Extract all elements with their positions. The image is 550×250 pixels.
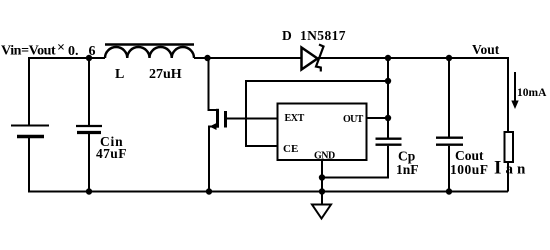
svg-text:×: × bbox=[57, 41, 65, 56]
svg-text:n: n bbox=[517, 162, 526, 178]
svg-text:CE: CE bbox=[283, 143, 298, 155]
svg-text:0.: 0. bbox=[68, 44, 79, 59]
svg-text:Vin=Vout: Vin=Vout bbox=[1, 44, 56, 59]
svg-text:1N5817: 1N5817 bbox=[300, 28, 346, 43]
svg-text:EXT: EXT bbox=[285, 113, 305, 124]
svg-text:47uF: 47uF bbox=[96, 146, 127, 161]
svg-text:OUT: OUT bbox=[343, 114, 364, 125]
svg-text:100uF: 100uF bbox=[450, 162, 489, 177]
svg-text:1nF: 1nF bbox=[396, 162, 419, 177]
svg-text:I: I bbox=[494, 158, 501, 179]
svg-text:Vout: Vout bbox=[472, 42, 500, 57]
svg-text:L: L bbox=[115, 67, 124, 82]
svg-text:6: 6 bbox=[89, 44, 96, 59]
svg-text:10mA: 10mA bbox=[517, 87, 547, 99]
svg-text:27uH: 27uH bbox=[149, 67, 182, 82]
svg-text:GND: GND bbox=[314, 151, 335, 162]
svg-text:D: D bbox=[282, 28, 292, 43]
svg-text:a: a bbox=[506, 162, 514, 178]
svg-text:Cout: Cout bbox=[455, 148, 484, 163]
